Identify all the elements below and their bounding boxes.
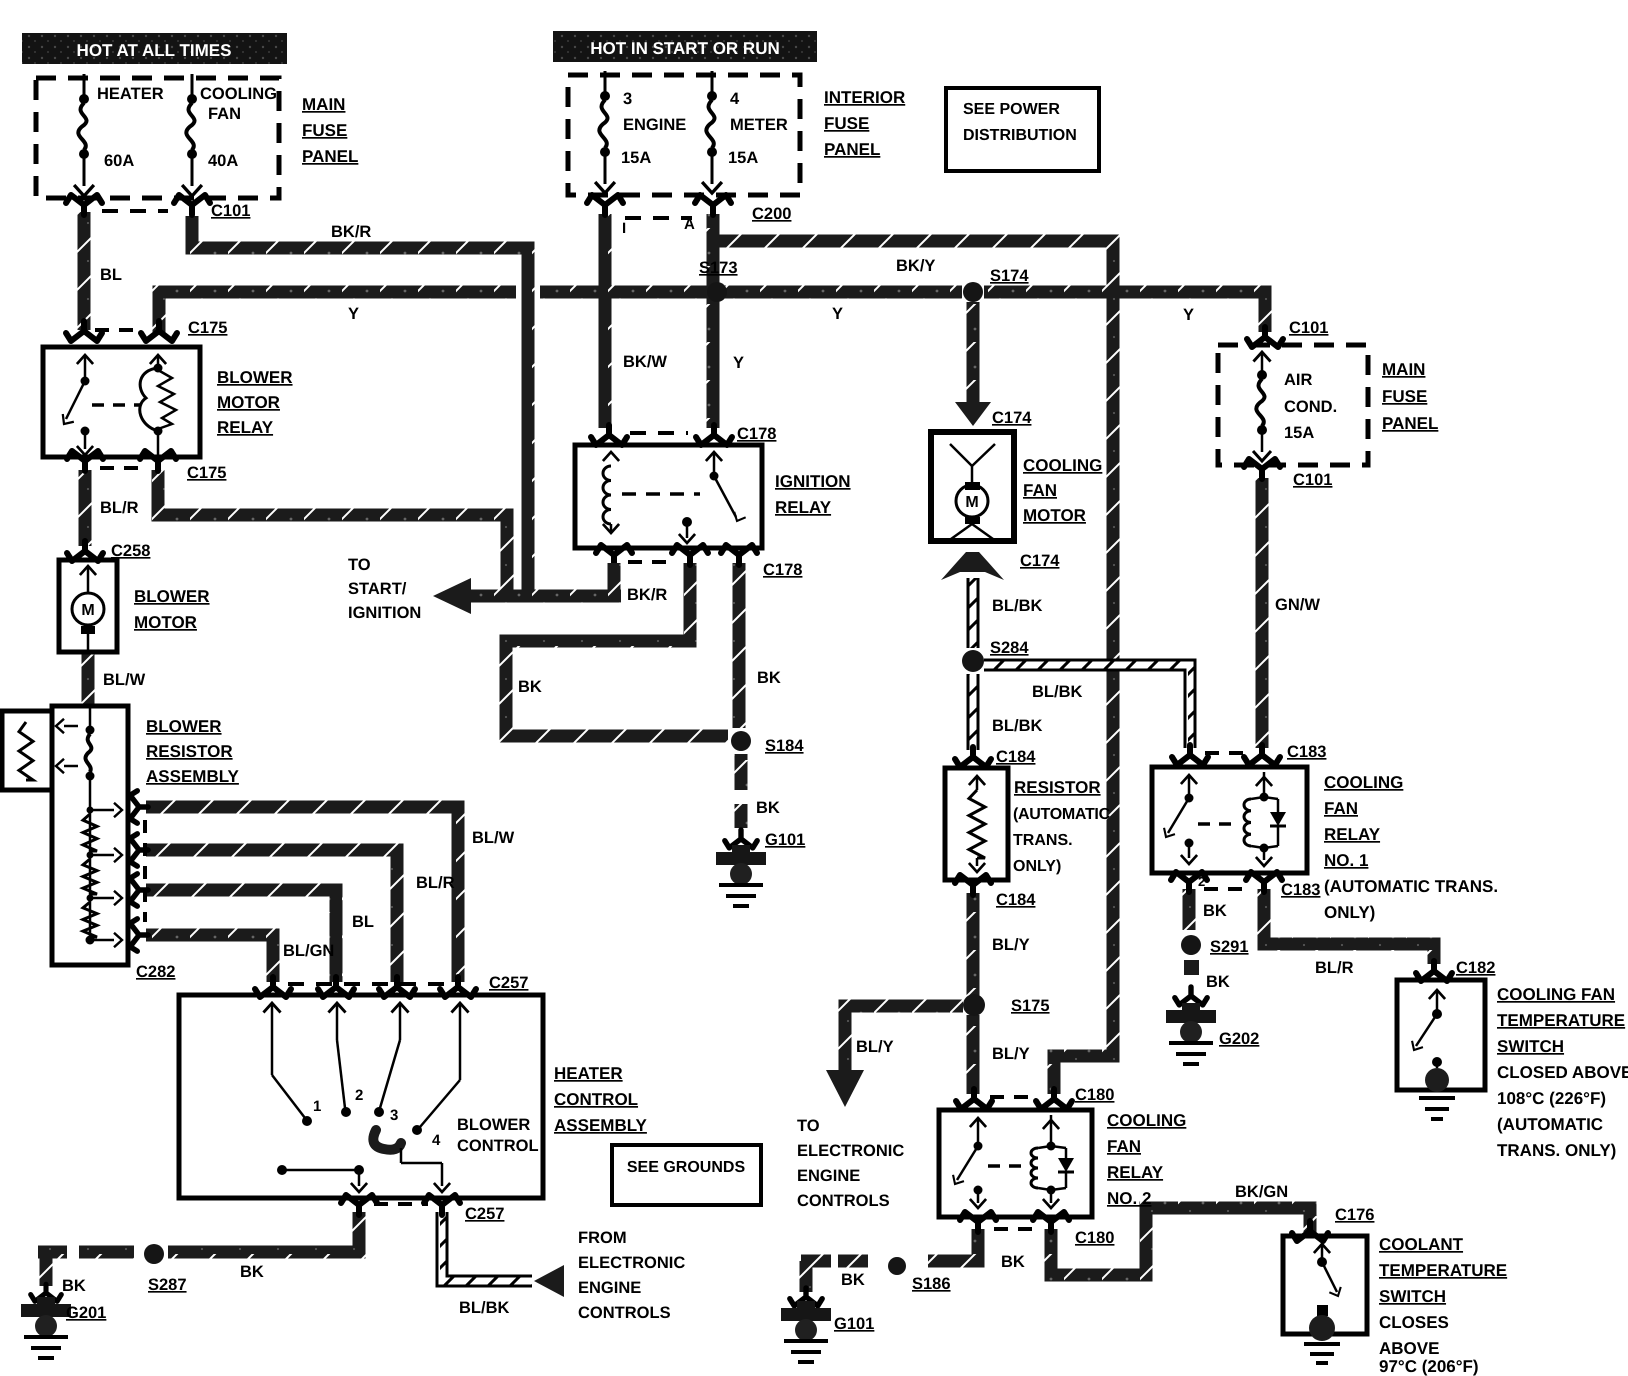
svg-text:IGNITION: IGNITION [348,604,421,622]
svg-text:C174: C174 [1020,552,1060,570]
svg-text:BK/R: BK/R [331,223,371,241]
svg-text:C178: C178 [737,425,776,443]
svg-text:C183: C183 [1287,743,1326,761]
svg-text:3: 3 [623,90,632,108]
svg-text:IGNITION: IGNITION [775,472,851,491]
svg-text:COOLING: COOLING [1107,1111,1186,1130]
svg-text:DISTRIBUTION: DISTRIBUTION [963,127,1077,144]
svg-text:(AUTOMATIC: (AUTOMATIC [1013,806,1111,823]
svg-text:BLOWER: BLOWER [146,717,222,736]
svg-text:108°C (226°F): 108°C (226°F) [1497,1089,1606,1108]
svg-text:C175: C175 [188,319,227,337]
svg-text:CLOSES: CLOSES [1379,1313,1449,1332]
svg-text:BK/Y: BK/Y [896,257,935,275]
svg-text:C101: C101 [211,202,250,220]
svg-text:COOLANT: COOLANT [1379,1235,1464,1254]
svg-text:97°C (206°F): 97°C (206°F) [1379,1357,1479,1376]
svg-text:(AUTOMATIC: (AUTOMATIC [1497,1115,1603,1134]
svg-text:BL/BK: BL/BK [992,717,1042,735]
svg-text:RELAY: RELAY [1107,1163,1164,1182]
svg-text:Y: Y [832,305,843,323]
svg-text:40A: 40A [208,152,238,170]
svg-text:HEATER: HEATER [97,85,164,103]
svg-text:Y: Y [348,305,359,323]
svg-text:RESISTOR: RESISTOR [1014,778,1101,797]
svg-text:C282: C282 [136,963,175,981]
svg-text:MOTOR: MOTOR [134,613,197,632]
svg-text:COND.: COND. [1284,398,1337,416]
svg-text:BL/W: BL/W [472,829,515,847]
svg-text:TO: TO [797,1117,820,1135]
svg-text:CONTROL: CONTROL [554,1090,638,1109]
svg-text:RELAY: RELAY [775,498,832,517]
svg-text:S284: S284 [990,639,1029,657]
svg-text:FUSE: FUSE [302,121,347,140]
svg-text:BL/Y: BL/Y [856,1038,894,1056]
svg-text:S174: S174 [990,267,1029,285]
svg-text:BLOWER: BLOWER [457,1116,530,1134]
svg-text:BK: BK [62,1277,86,1295]
svg-text:FAN: FAN [1324,799,1358,818]
svg-text:C176: C176 [1335,1206,1374,1224]
svg-text:ONLY): ONLY) [1324,903,1375,922]
svg-text:C175: C175 [187,464,226,482]
svg-text:Y: Y [1183,306,1194,324]
svg-text:START/: START/ [348,580,407,598]
svg-text:S184: S184 [765,737,804,755]
svg-text:ELECTRONIC: ELECTRONIC [797,1142,904,1160]
svg-text:COOLING: COOLING [200,85,277,103]
svg-text:SEE GROUNDS: SEE GROUNDS [627,1159,746,1176]
svg-text:ENGINE: ENGINE [578,1279,641,1297]
svg-text:(AUTOMATIC TRANS.: (AUTOMATIC TRANS. [1324,877,1498,896]
svg-text:BL/BK: BL/BK [1032,683,1082,701]
svg-text:FAN: FAN [1023,481,1057,500]
svg-text:S173: S173 [699,259,738,277]
svg-text:15A: 15A [728,149,758,167]
svg-text:BL/Y: BL/Y [992,936,1030,954]
svg-text:SEE POWER: SEE POWER [963,101,1060,118]
svg-text:BK: BK [240,1263,264,1281]
svg-text:ABOVE: ABOVE [1379,1339,1439,1358]
svg-text:NO. 1: NO. 1 [1324,851,1368,870]
svg-text:C180: C180 [1075,1229,1114,1247]
svg-text:S186: S186 [912,1275,951,1293]
svg-text:BL/BK: BL/BK [992,597,1042,615]
svg-text:BLOWER: BLOWER [134,587,210,606]
svg-text:MAIN: MAIN [1382,360,1425,379]
svg-text:C184: C184 [996,748,1036,766]
svg-text:COOLING FAN: COOLING FAN [1497,985,1615,1004]
svg-text:S291: S291 [1210,938,1249,956]
svg-text:C174: C174 [992,409,1032,427]
svg-text:ELECTRONIC: ELECTRONIC [578,1254,685,1272]
svg-text:ASSEMBLY: ASSEMBLY [554,1116,648,1135]
svg-text:TRANS.: TRANS. [1013,832,1073,849]
svg-text:HOT IN START OR RUN: HOT IN START OR RUN [590,39,780,58]
svg-text:HEATER: HEATER [554,1064,623,1083]
svg-text:C257: C257 [465,1205,504,1223]
svg-text:C183: C183 [1281,881,1320,899]
svg-text:BL/R: BL/R [416,874,455,892]
svg-text:BK: BK [1206,973,1230,991]
svg-text:BLOWER: BLOWER [217,368,293,387]
svg-text:BK: BK [1001,1253,1025,1271]
svg-text:NO. 2: NO. 2 [1107,1189,1151,1208]
svg-text:MOTOR: MOTOR [217,393,280,412]
svg-text:BK: BK [518,678,542,696]
svg-text:C178: C178 [763,561,802,579]
svg-text:M: M [81,602,94,619]
svg-text:G101: G101 [765,831,805,849]
svg-text:CONTROLS: CONTROLS [578,1304,671,1322]
svg-text:C184: C184 [996,891,1036,909]
svg-text:BL/R: BL/R [1315,959,1354,977]
svg-text:COOLING: COOLING [1023,456,1102,475]
svg-text:C101: C101 [1293,471,1332,489]
svg-text:1: 1 [313,1098,321,1115]
svg-text:C101: C101 [1289,319,1328,337]
svg-text:S175: S175 [1011,997,1050,1015]
svg-text:MOTOR: MOTOR [1023,506,1086,525]
svg-text:FROM: FROM [578,1229,627,1247]
svg-text:TO: TO [348,556,371,574]
svg-text:ENGINE: ENGINE [623,116,686,134]
svg-text:4: 4 [432,1132,441,1149]
svg-text:A: A [684,216,695,233]
svg-text:TEMPERATURE: TEMPERATURE [1497,1011,1625,1030]
svg-text:RESISTOR: RESISTOR [146,742,233,761]
svg-text:BL: BL [352,913,374,931]
svg-text:COOLING: COOLING [1324,773,1403,792]
svg-text:AIR: AIR [1284,371,1313,389]
svg-text:BL/BK: BL/BK [459,1299,509,1317]
svg-text:C180: C180 [1075,1086,1114,1104]
svg-text:BK: BK [1203,902,1227,920]
svg-text:ONLY): ONLY) [1013,858,1061,875]
svg-text:BK/R: BK/R [627,586,667,604]
svg-text:C182: C182 [1456,959,1495,977]
svg-text:3: 3 [390,1107,398,1124]
svg-text:4: 4 [730,90,740,108]
svg-text:BL/R: BL/R [100,499,139,517]
svg-text:MAIN: MAIN [302,95,345,114]
svg-text:BL/W: BL/W [103,671,146,689]
svg-text:HOT AT ALL TIMES: HOT AT ALL TIMES [77,41,232,60]
svg-text:2: 2 [1198,874,1205,889]
svg-text:C258: C258 [111,542,150,560]
svg-text:FAN: FAN [208,105,241,123]
svg-text:Y: Y [733,354,744,372]
svg-text:METER: METER [730,116,788,134]
svg-text:BL/GN: BL/GN [283,942,334,960]
svg-text:BK: BK [757,669,781,687]
svg-text:CLOSED ABOVE: CLOSED ABOVE [1497,1063,1628,1082]
svg-text:C257: C257 [489,974,528,992]
svg-text:GN/W: GN/W [1275,596,1320,614]
svg-text:BL/Y: BL/Y [992,1045,1030,1063]
svg-text:ASSEMBLY: ASSEMBLY [146,767,240,786]
svg-text:FUSE: FUSE [1382,387,1427,406]
svg-text:BL: BL [100,266,122,284]
svg-text:I: I [622,220,626,237]
svg-text:S287: S287 [148,1276,187,1294]
svg-text:G201: G201 [66,1304,106,1322]
svg-text:M: M [965,494,978,511]
svg-text:C200: C200 [752,205,791,223]
svg-text:60A: 60A [104,152,134,170]
svg-text:SWITCH: SWITCH [1379,1287,1446,1306]
svg-text:BK/GN: BK/GN [1235,1183,1288,1201]
svg-text:FUSE: FUSE [824,114,869,133]
svg-text:TRANS. ONLY): TRANS. ONLY) [1497,1141,1616,1160]
svg-text:RELAY: RELAY [217,418,274,437]
svg-text:PANEL: PANEL [824,140,880,159]
svg-text:G202: G202 [1219,1030,1259,1048]
svg-text:BK: BK [756,799,780,817]
svg-text:FAN: FAN [1107,1137,1141,1156]
svg-text:PANEL: PANEL [302,147,358,166]
svg-text:15A: 15A [621,149,651,167]
svg-text:G101: G101 [834,1315,874,1333]
svg-text:SWITCH: SWITCH [1497,1037,1564,1056]
svg-text:ENGINE: ENGINE [797,1167,860,1185]
svg-text:PANEL: PANEL [1382,414,1438,433]
svg-text:TEMPERATURE: TEMPERATURE [1379,1261,1507,1280]
svg-text:CONTROL: CONTROL [457,1137,539,1155]
svg-text:BK/W: BK/W [623,353,667,371]
svg-text:INTERIOR: INTERIOR [824,88,905,107]
svg-text:BK: BK [841,1271,865,1289]
svg-text:2: 2 [355,1087,363,1104]
svg-text:15A: 15A [1284,424,1314,442]
svg-text:RELAY: RELAY [1324,825,1381,844]
svg-text:CONTROLS: CONTROLS [797,1192,890,1210]
